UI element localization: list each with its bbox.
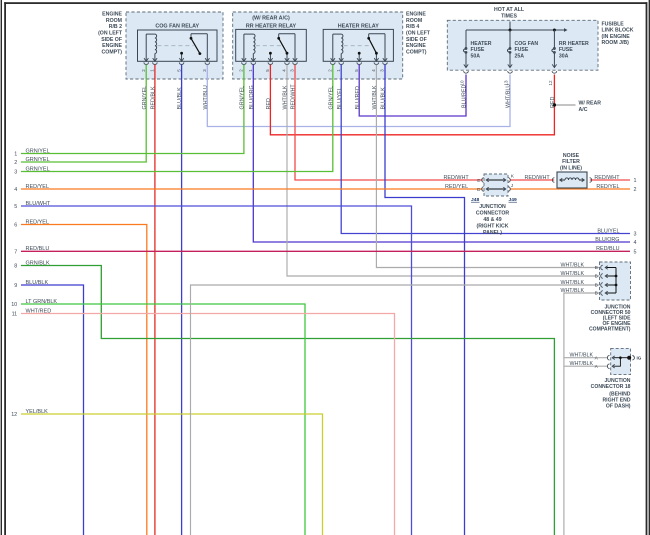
svg-text:(RIGHT KICK: (RIGHT KICK: [477, 224, 509, 230]
svg-text:FUSE: FUSE: [471, 47, 485, 53]
wire RED/WHT junction K to noise filter: [510, 179, 554, 181]
wire GRN/YEL RR pin2 to left wire 1: [21, 65, 244, 154]
pin 2 of RR HEATER RELAY (arrow, socket, number): [242, 58, 246, 61]
svg-text:OF DASH): OF DASH): [606, 404, 631, 410]
svg-text:3: 3: [634, 232, 637, 238]
wire BLU/RED HEATER pin5 to HEATER FUSE 10: [359, 65, 466, 116]
svg-text:COMPT): COMPT): [406, 50, 427, 56]
wire WHT/BLK HEATER pin4 to junction connector 50: [376, 65, 599, 268]
page border top: [4, 2, 647, 4]
svg-text:RED/YEL: RED/YEL: [26, 184, 50, 190]
svg-text:LT GRN/BLK: LT GRN/BLK: [26, 299, 58, 305]
connector socket left of noise filter: [552, 178, 554, 183]
svg-text:ROOM: ROOM: [106, 18, 122, 24]
junction 18 internal link: [614, 357, 629, 359]
svg-text:ENGINE: ENGINE: [406, 43, 426, 49]
svg-text:WHT/BLK: WHT/BLK: [569, 361, 593, 367]
svg-text:WHT/BLU: WHT/BLU: [506, 84, 512, 108]
svg-text:30A: 30A: [559, 53, 569, 59]
relay HEATER RELAY actuation dashes: [344, 45, 372, 47]
pin 4 of RR HEATER RELAY (arrow, socket, number): [285, 58, 289, 61]
wire LT GRN/BLK left wire 10 down to page bottom: [21, 304, 305, 535]
svg-text:PANEL): PANEL): [483, 230, 502, 236]
pin 4 of HEATER RELAY (arrow, socket, number): [374, 58, 378, 61]
svg-text:(W/ REAR A/C): (W/ REAR A/C): [252, 15, 290, 21]
wire BLU/BLK left wire 9 down to page bottom: [21, 285, 84, 535]
svg-text:W/ REAR: W/ REAR: [579, 101, 602, 107]
svg-text:A/C: A/C: [579, 107, 588, 113]
svg-text:B: B: [595, 291, 598, 297]
svg-text:COMPT): COMPT): [102, 50, 123, 56]
svg-text:GRN/YEL: GRN/YEL: [240, 86, 246, 110]
junction connector 50 box: [600, 262, 631, 300]
svg-text:WHT/BLK: WHT/BLK: [560, 271, 584, 277]
fuse bus: [466, 29, 566, 31]
svg-text:RED/WHT: RED/WHT: [525, 175, 551, 181]
svg-text:8: 8: [14, 264, 17, 270]
svg-text:25A: 25A: [515, 53, 525, 59]
svg-text:12: 12: [11, 412, 17, 418]
wire RED/BLU left wire 7 to right wire 5: [21, 250, 630, 252]
svg-text:48 & 49: 48 & 49: [483, 217, 501, 223]
wire RED/WHT inside junction connector 48-49: [486, 179, 507, 181]
svg-text:2: 2: [14, 160, 17, 166]
wire WHT/BLK RR pin4 to junction connector 50: [287, 65, 600, 276]
junction 48-49 internal arrows: [488, 179, 505, 181]
junction 18 output dot: [627, 356, 631, 360]
svg-text:RED/YEL: RED/YEL: [26, 219, 50, 225]
svg-text:5: 5: [14, 204, 17, 210]
svg-text:HOT AT ALL: HOT AT ALL: [494, 7, 525, 13]
svg-text:RED/BLK: RED/BLK: [151, 86, 157, 109]
page border left: [1, 0, 2, 535]
svg-text:BLU/ORG: BLU/ORG: [595, 237, 619, 243]
wire BLU/BLK COG pin5 down to page bottom: [181, 65, 183, 535]
svg-text:WHT/BLK: WHT/BLK: [560, 262, 584, 268]
svg-text:R/B 2: R/B 2: [109, 24, 122, 30]
fusible link block: [447, 20, 598, 70]
junction dot W/ REAR A/C tap on RED wire: [553, 103, 556, 106]
relay RR HEATER RELAY switch: [294, 34, 296, 61]
noise filter internal coil: [560, 179, 566, 181]
svg-text:R/B 4: R/B 4: [406, 24, 419, 30]
pin 5 of RR HEATER RELAY (arrow, socket, number): [268, 58, 272, 61]
connector socket IG: [632, 356, 634, 360]
svg-text:YEL/BLK: YEL/BLK: [26, 409, 49, 415]
leader line to W/ REAR A/C: [556, 104, 576, 106]
svg-text:ENGINE: ENGINE: [406, 11, 426, 17]
relay HEATER RELAY switch: [384, 34, 386, 61]
svg-text:IG: IG: [637, 356, 642, 361]
svg-text:GRN/YEL: GRN/YEL: [26, 166, 50, 172]
svg-text:TIMES: TIMES: [501, 14, 517, 20]
relay COG FAN RELAY switch: [206, 34, 208, 61]
svg-text:(IN ENGINE: (IN ENGINE: [602, 34, 631, 40]
relay RR HEATER RELAY coil: [243, 34, 245, 61]
svg-text:HEATER: HEATER: [471, 41, 492, 47]
svg-text:WHT/RED: WHT/RED: [26, 308, 52, 314]
junction 50 bus dot: [615, 284, 618, 287]
svg-text:RED/BLU: RED/BLU: [26, 246, 50, 252]
svg-text:RED/WHT: RED/WHT: [444, 175, 470, 181]
svg-text:(ON LEFT: (ON LEFT: [406, 30, 431, 36]
wire RED/WHT noise filter to right wire 1: [590, 179, 630, 181]
connector socket pin D: [482, 187, 484, 192]
pin 2 of HEATER RELAY (arrow, socket, number): [331, 58, 335, 61]
wire RED RR pin5 to RR HEATER FUSE 12: [270, 65, 554, 135]
junction 50 internal bus: [615, 268, 617, 294]
svg-text:RED/YEL: RED/YEL: [445, 184, 468, 190]
relay COG FAN RELAY coil: [145, 34, 147, 61]
svg-text:3: 3: [14, 170, 17, 176]
wire BLU/ORG RR pin1 to right wire 4: [253, 65, 630, 242]
svg-text:SIDE OF: SIDE OF: [406, 37, 427, 43]
pin 1 of HEATER RELAY (arrow, socket, number): [339, 58, 343, 61]
relay COG FAN RELAY actuation dashes: [157, 45, 193, 47]
svg-text:FUSIBLE: FUSIBLE: [602, 21, 625, 27]
junction 18 dot: [619, 356, 622, 359]
svg-text:RED: RED: [266, 98, 272, 109]
svg-text:B: B: [595, 265, 598, 271]
svg-text:GRN/BLK: GRN/BLK: [26, 260, 50, 266]
pin 1 of RR HEATER RELAY (arrow, socket, number): [251, 58, 255, 61]
svg-text:RED/BLU: RED/BLU: [596, 246, 619, 252]
wire WHT/BLU COG pin3 to COG FAN FUSE 13: [207, 65, 510, 127]
wire BLU/WHT left wire 5 down to page bottom: [21, 206, 412, 535]
connector socket right of noise filter: [590, 178, 592, 183]
svg-text:BLU/RED: BLU/RED: [355, 86, 361, 109]
svg-text:GRN/YEL: GRN/YEL: [26, 157, 50, 163]
relay HEATER RELAY coil: [332, 34, 334, 61]
svg-text:FILTER: FILTER: [562, 159, 580, 165]
wire BLU/YEL HEATER pin1 to right wire 3: [341, 65, 630, 234]
relay RR HEATER RELAY inner box: [236, 29, 307, 61]
svg-text:FUSE: FUSE: [515, 47, 529, 53]
page border right: [646, 2, 648, 535]
svg-text:6: 6: [14, 223, 17, 229]
junction 50 bus dot: [615, 275, 618, 278]
pin 3 of RR HEATER RELAY (arrow, socket, number): [293, 58, 297, 61]
svg-text:LINK BLOCK: LINK BLOCK: [602, 28, 634, 34]
wire GRN/YEL HEATER pin2 to left wire 3: [21, 65, 333, 172]
wire WHT/BLK branches to junction connector 18: [564, 357, 607, 359]
pin 3 of COG FAN RELAY (arrow, socket, number): [205, 58, 209, 61]
svg-text:1: 1: [14, 152, 17, 158]
engine room R/B 2 block (COG fan relay housing): [126, 12, 223, 79]
svg-text:10: 10: [11, 302, 17, 308]
connector socket A top: [607, 355, 609, 360]
svg-text:ENGINE: ENGINE: [102, 43, 122, 49]
pin 5 of HEATER RELAY (arrow, socket, number): [357, 58, 361, 61]
svg-text:(ON LEFT: (ON LEFT: [98, 30, 123, 36]
svg-text:BLU/BLK: BLU/BLK: [381, 87, 387, 110]
svg-text:WHT/BLK: WHT/BLK: [560, 280, 584, 286]
svg-text:SIDE OF: SIDE OF: [101, 37, 122, 43]
connector socket A bottom: [607, 364, 609, 369]
pin 3 of HEATER RELAY (arrow, socket, number): [383, 58, 387, 61]
bus feed from HOT AT ALL TIMES: [509, 22, 511, 31]
svg-text:RED/YEL: RED/YEL: [596, 184, 619, 190]
connector socket pin E: [482, 178, 484, 183]
svg-text:BLU/BLK: BLU/BLK: [26, 280, 49, 286]
relay HEATER RELAY inner box: [323, 29, 393, 61]
svg-text:ENGINE: ENGINE: [102, 11, 122, 17]
svg-text:COG FAN: COG FAN: [515, 41, 539, 47]
RR HEATER FUSE 30A: [553, 30, 555, 45]
svg-text:CONNECTOR 18: CONNECTOR 18: [591, 384, 631, 390]
pin 5 of COG FAN RELAY (arrow, socket, number): [179, 58, 183, 61]
svg-text:4: 4: [14, 187, 17, 193]
svg-text:(IN LINE): (IN LINE): [560, 165, 582, 171]
svg-text:COMPARTMENT): COMPARTMENT): [589, 327, 631, 333]
svg-text:11: 11: [12, 312, 18, 318]
svg-text:JUNCTION: JUNCTION: [479, 204, 506, 210]
wire GRN/YEL COG pin2 to left wire 2: [21, 65, 146, 162]
svg-text:GRN/YEL: GRN/YEL: [26, 148, 50, 154]
svg-text:HEATER RELAY: HEATER RELAY: [338, 24, 379, 30]
svg-text:B: B: [595, 274, 598, 280]
wire RED/WHT RR pin3 to junction connector 48 pin E: [295, 65, 483, 180]
svg-text:BLU/ORG: BLU/ORG: [249, 85, 255, 109]
svg-text:E: E: [477, 178, 480, 184]
svg-text:CONNECTOR: CONNECTOR: [476, 211, 510, 217]
svg-text:WHT/BLK: WHT/BLK: [283, 85, 289, 109]
svg-text:ROOM: ROOM: [406, 18, 422, 24]
svg-text:BLU/YEL: BLU/YEL: [337, 87, 343, 109]
svg-text:BLU/YEL: BLU/YEL: [597, 228, 619, 234]
relay RR HEATER RELAY actuation dashes: [256, 45, 281, 47]
svg-text:BLU/WHT: BLU/WHT: [26, 201, 51, 207]
engine room R/B 4 block (RR heater + heater relay housing): [233, 12, 403, 79]
connector socket pin J: [508, 187, 510, 192]
HEATER FUSE 50A: [465, 30, 467, 45]
wire WHT/BLK junction connector 50 down to page bottom: [564, 293, 600, 535]
svg-text:GRN/YEL: GRN/YEL: [142, 86, 148, 110]
wire YEL/BLK left wire 12 down to page bottom: [21, 414, 323, 535]
svg-text:2: 2: [634, 187, 637, 193]
junction connector 48 and 49 box: [484, 174, 508, 196]
wire RED/YEL left wire 6 down to page bottom: [21, 225, 147, 535]
bus junction dot at RR HEATER FUSE: [553, 29, 556, 32]
svg-text:1: 1: [634, 178, 637, 184]
svg-text:50A: 50A: [471, 53, 481, 59]
svg-text:GRN/YEL: GRN/YEL: [328, 86, 334, 110]
wire WHT/RED left wire 11 down to page bottom: [21, 314, 395, 535]
svg-text:RED/WHT: RED/WHT: [291, 84, 297, 110]
svg-text:BLU/BLK: BLU/BLK: [177, 87, 183, 110]
COG FAN FUSE 25A: [509, 30, 511, 45]
pin 1 of COG FAN RELAY (arrow, socket, number): [153, 58, 157, 61]
noise filter box: [557, 172, 587, 188]
svg-text:FUSE: FUSE: [559, 47, 573, 53]
svg-text:RED: RED: [550, 97, 556, 108]
svg-text:D: D: [477, 187, 481, 193]
wire RED/BLK COG pin1 down to page bottom: [154, 65, 156, 535]
connector socket pin K: [508, 178, 510, 183]
svg-text:WHT/BLK: WHT/BLK: [372, 85, 378, 109]
svg-text:B: B: [595, 283, 598, 289]
junction connector 18 box: [611, 348, 631, 374]
svg-text:12: 12: [548, 80, 553, 86]
wire RED/YEL left wire 4 through junction connector to right wire 2: [21, 188, 483, 190]
svg-text:RR HEATER RELAY: RR HEATER RELAY: [246, 24, 297, 30]
svg-text:WHT/BLU: WHT/BLU: [203, 85, 209, 109]
svg-text:BLU/RED: BLU/RED: [462, 85, 468, 108]
svg-text:4: 4: [634, 240, 637, 246]
svg-text:RR HEATER: RR HEATER: [559, 41, 589, 47]
svg-text:7: 7: [14, 249, 17, 255]
wire WHT/BLK from page bottom to junction connector 50: [191, 285, 600, 535]
svg-text:COG FAN RELAY: COG FAN RELAY: [155, 24, 199, 30]
wire GRN/BLK left wire 8 down to page bottom: [21, 266, 554, 535]
svg-text:RED/WHT: RED/WHT: [594, 175, 620, 181]
svg-text:5: 5: [634, 249, 637, 255]
svg-text:WHT/BLK: WHT/BLK: [569, 353, 593, 359]
svg-text:9: 9: [14, 283, 17, 289]
bus junction dot at COG FAN FUSE: [509, 29, 512, 32]
wire BLU/BLK HEATER pin3 down to page bottom: [385, 65, 465, 535]
svg-text:ROOM J/B): ROOM J/B): [602, 40, 630, 46]
svg-text:WHT/BLK: WHT/BLK: [560, 288, 584, 294]
svg-text:NOISE: NOISE: [563, 153, 580, 159]
pin 2 of COG FAN RELAY (arrow, socket, number): [144, 58, 148, 61]
relay COG FAN RELAY inner box: [138, 30, 218, 61]
